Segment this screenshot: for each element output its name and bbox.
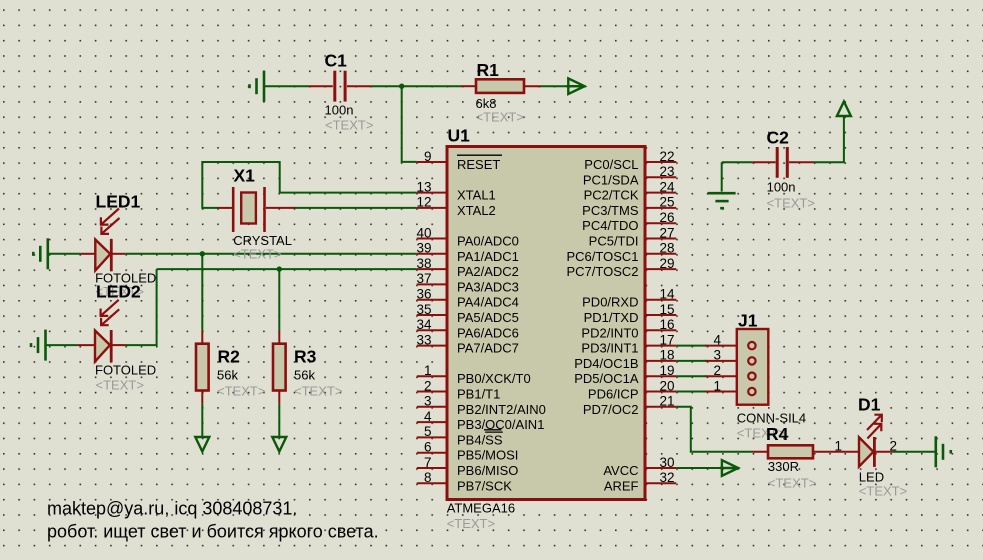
svg-text:R3: R3 <box>294 346 317 366</box>
wire C1 to R1 <box>371 85 461 87</box>
pin 38 PA2/ADC2 <box>416 256 518 279</box>
wire AVCC to power arrow <box>676 467 721 469</box>
wire node to R3 <box>278 269 280 331</box>
svg-text:20: 20 <box>660 378 675 393</box>
svg-text:35: 35 <box>416 302 431 317</box>
wire LED1 to PA1 <box>125 253 417 255</box>
svg-text:AVCC: AVCC <box>603 463 638 478</box>
pin 2 PB1/T1 <box>417 378 501 401</box>
pin 7 PB6/MISO <box>417 455 519 478</box>
wire R1 to power arrow <box>541 85 584 87</box>
svg-text:<TEXT>: <TEXT> <box>768 476 816 491</box>
svg-text:9: 9 <box>424 149 432 164</box>
pin 18 PD4/OC1B <box>574 348 676 371</box>
pin 1 PB0/XCK/T0 <box>417 363 531 386</box>
svg-text:7: 7 <box>424 455 432 470</box>
svg-text:36: 36 <box>416 287 431 302</box>
wire X1 to XTAL1 <box>202 162 416 208</box>
svg-text:PA4/ADC4: PA4/ADC4 <box>457 295 519 310</box>
svg-text:R2: R2 <box>218 346 241 366</box>
svg-text:2: 2 <box>424 378 432 393</box>
capacitor C1 <box>309 71 372 102</box>
svg-text:<TEXT>: <TEXT> <box>294 384 342 399</box>
wire LED2 riser to PA2 <box>157 268 417 270</box>
svg-text:32: 32 <box>660 470 675 485</box>
wire C2 gnd drop <box>721 162 723 191</box>
wire pin18 to J1 pin3 <box>676 360 706 362</box>
svg-text:40: 40 <box>416 225 431 240</box>
svg-text:PD6/ICP: PD6/ICP <box>588 387 639 402</box>
svg-text:PA7/ADC7: PA7/ADC7 <box>457 341 519 356</box>
pin 8 PB7/SCK <box>417 470 512 493</box>
svg-text:XTAL1: XTAL1 <box>457 188 496 203</box>
svg-text:3: 3 <box>713 348 721 363</box>
pin 35 PA5/ADC5 <box>416 302 518 325</box>
wire node to R2 <box>201 254 203 331</box>
svg-text:LED1: LED1 <box>96 192 141 212</box>
svg-text:<TEXT>: <TEXT> <box>767 196 815 211</box>
ground at LED1 <box>33 238 48 269</box>
svg-text:PC7/TOSC2: PC7/TOSC2 <box>566 264 638 279</box>
svg-text:PB1/T1: PB1/T1 <box>457 387 500 402</box>
svg-text:8: 8 <box>424 470 432 485</box>
svg-text:X1: X1 <box>234 165 256 185</box>
svg-text:33: 33 <box>416 332 431 347</box>
photodiode LED1 <box>80 209 125 272</box>
svg-text:U1: U1 <box>448 126 471 146</box>
pin 36 PA4/ADC4 <box>416 287 518 310</box>
svg-text:PA2/ADC2: PA2/ADC2 <box>457 264 519 279</box>
wire gnd to LED2 <box>46 344 77 346</box>
svg-text:PA5/ADC5: PA5/ADC5 <box>457 310 519 325</box>
svg-text:<TEXT>: <TEXT> <box>325 118 373 133</box>
svg-text:19: 19 <box>660 363 675 378</box>
svg-text:6: 6 <box>424 440 432 455</box>
svg-text:2: 2 <box>713 363 721 378</box>
svg-text:R4: R4 <box>766 424 789 444</box>
resistor R1 <box>461 79 541 93</box>
wire pin17 to J1 pin4 <box>676 345 706 347</box>
svg-text:робот. ищет свет и боится ярко: робот. ищет свет и боится яркого света. <box>47 522 379 542</box>
power down arrow below R2 <box>195 437 209 452</box>
svg-text:J1: J1 <box>738 311 758 331</box>
svg-text:PB4/SS: PB4/SS <box>457 432 503 447</box>
pin 23 PC1/SDA <box>583 164 676 187</box>
pin 5 PB4/SS <box>417 424 503 447</box>
svg-text:PD4/OC1B: PD4/OC1B <box>574 356 638 371</box>
svg-text:PC1/SDA: PC1/SDA <box>583 172 639 187</box>
svg-text:R1: R1 <box>477 60 500 80</box>
svg-text:1: 1 <box>424 363 432 378</box>
svg-text:LED: LED <box>859 470 884 485</box>
power arrow at AVCC <box>720 460 738 476</box>
wire R2 to down arrow <box>201 404 203 438</box>
resistor R2 <box>196 331 209 404</box>
svg-text:24: 24 <box>660 179 676 194</box>
svg-text:1: 1 <box>713 378 721 393</box>
pin 17 PD3/INT1 <box>581 332 676 355</box>
wire LED2 riser <box>126 269 157 345</box>
svg-text:C1: C1 <box>325 51 348 71</box>
pin 21 PD7/OC2 <box>583 394 676 417</box>
wire gnd to C1 <box>264 85 309 87</box>
MCU U1 body <box>447 147 645 500</box>
pin 28 PC6/TOSC1 <box>566 241 676 264</box>
svg-text:PB2/INT2/AIN0: PB2/INT2/AIN0 <box>457 402 546 417</box>
pin 20 PD6/ICP <box>588 378 676 401</box>
pin 9 RESET <box>417 149 502 172</box>
resistor R4 <box>753 445 832 458</box>
LED D1 <box>832 415 893 467</box>
wire pin19 to J1 pin2 <box>676 375 706 377</box>
svg-text:<TEXT>: <TEXT> <box>476 110 524 125</box>
svg-text:ATMEGA16: ATMEGA16 <box>447 501 515 516</box>
pin 37 PA3/ADC3 <box>416 271 518 294</box>
svg-text:PC5/TDI: PC5/TDI <box>589 234 639 249</box>
svg-text:14: 14 <box>660 287 676 302</box>
svg-text:PD2/INT0: PD2/INT0 <box>581 325 638 340</box>
svg-text:13: 13 <box>416 179 431 194</box>
svg-text:4: 4 <box>424 409 432 424</box>
svg-text:3: 3 <box>424 394 432 409</box>
pin 25 PC3/TMS <box>582 195 676 218</box>
ground at C1 <box>250 71 265 102</box>
svg-text:PD1/TXD: PD1/TXD <box>584 310 639 325</box>
svg-text:18: 18 <box>660 348 675 363</box>
svg-text:56k: 56k <box>217 368 238 383</box>
svg-text:PB5/MOSI: PB5/MOSI <box>457 448 518 463</box>
node junction LED1/PA1/R2 <box>200 251 205 256</box>
pin 29 PC7/TOSC2 <box>566 256 676 279</box>
svg-text:PB7/SCK: PB7/SCK <box>457 478 512 493</box>
pin 33 PA7/ADC7 <box>416 332 518 355</box>
wire R3 to down arrow <box>278 404 280 438</box>
svg-text:28: 28 <box>660 241 675 256</box>
svg-text:5: 5 <box>424 424 432 439</box>
svg-text:38: 38 <box>416 256 431 271</box>
svg-text:<TEXT>: <TEXT> <box>859 484 907 499</box>
svg-text:21: 21 <box>660 394 675 409</box>
pin 27 PC5/TDI <box>589 225 677 248</box>
svg-text:34: 34 <box>416 317 432 332</box>
svg-text:PB6/MISO: PB6/MISO <box>457 463 518 478</box>
svg-text:16: 16 <box>660 317 675 332</box>
svg-text:C2: C2 <box>767 128 790 148</box>
svg-text:<TEXT>: <TEXT> <box>233 247 281 262</box>
svg-text:PD3/INT1: PD3/INT1 <box>581 341 638 356</box>
svg-text:100n: 100n <box>767 180 796 195</box>
ground at C2 <box>708 193 736 208</box>
svg-text:PC4/TDO: PC4/TDO <box>582 218 638 233</box>
node junction LED2/PA2/R3 <box>277 266 282 271</box>
wire pin21 to R4 <box>676 407 752 452</box>
pin 14 PD0/RXD <box>582 287 676 310</box>
svg-text:PB0/XCK/T0: PB0/XCK/T0 <box>457 371 531 386</box>
svg-text:37: 37 <box>416 271 431 286</box>
pin 24 PC2/TCK <box>584 179 677 202</box>
svg-text:27: 27 <box>660 225 675 240</box>
svg-text:D1: D1 <box>858 395 881 415</box>
svg-text:<TEXT>: <TEXT> <box>217 384 265 399</box>
resistor R3 <box>273 331 286 404</box>
svg-text:23: 23 <box>660 164 675 179</box>
svg-text:PA1/ADC1: PA1/ADC1 <box>457 249 519 264</box>
ground at D1 <box>936 436 951 467</box>
svg-text:PC0/SCL: PC0/SCL <box>584 157 638 172</box>
pin 30 AVCC <box>603 455 676 478</box>
pin 3 PB2/INT2/AIN0 <box>417 394 546 417</box>
svg-text:PC3/TMS: PC3/TMS <box>582 203 639 218</box>
pin 32 AREF <box>604 470 676 493</box>
wire X1 to XTAL2 <box>295 207 417 209</box>
ground at LED2 <box>31 330 46 361</box>
svg-text:XTAL2: XTAL2 <box>457 203 496 218</box>
svg-text:PA3/ADC3: PA3/ADC3 <box>457 279 519 294</box>
pin 34 PA6/ADC6 <box>416 317 518 340</box>
pin 15 PD1/TXD <box>584 302 677 325</box>
power arrow at C2 <box>837 102 851 117</box>
pin 4 PB3/OC0/AIN1 <box>417 409 545 432</box>
pin 26 PC4/TDO <box>582 210 676 233</box>
pin 12 XTAL2 <box>416 195 495 218</box>
svg-text:AREF: AREF <box>604 478 639 493</box>
pin 16 PD2/INT0 <box>581 317 676 340</box>
pin 39 PA1/ADC1 <box>416 241 518 264</box>
wire C2 to power arrow <box>814 115 844 162</box>
svg-text:PA6/ADC6: PA6/ADC6 <box>457 325 519 340</box>
svg-text:25: 25 <box>660 195 675 210</box>
svg-text:2: 2 <box>890 439 898 454</box>
capacitor C2 <box>753 147 814 178</box>
svg-text:39: 39 <box>416 241 431 256</box>
svg-text:1: 1 <box>834 439 842 454</box>
svg-text:<TEXT>: <TEXT> <box>447 516 495 531</box>
svg-text:PC2/TCK: PC2/TCK <box>584 188 639 203</box>
svg-text:PC6/TOSC1: PC6/TOSC1 <box>566 249 638 264</box>
pin 22 PC0/SCL <box>584 149 676 172</box>
svg-text:22: 22 <box>660 149 675 164</box>
svg-text:PA0/ADC0: PA0/ADC0 <box>457 234 519 249</box>
svg-text:FOTOLED: FOTOLED <box>95 363 156 378</box>
wire node to RESET pin 9 <box>402 86 417 162</box>
svg-text:56k: 56k <box>294 368 315 383</box>
svg-text:RESET: RESET <box>457 157 500 172</box>
svg-text:PD5/OC1A: PD5/OC1A <box>574 371 639 386</box>
svg-text:26: 26 <box>660 210 675 225</box>
connector J1 CONN-SIL4 <box>705 329 768 405</box>
pin 13 XTAL1 <box>416 179 495 202</box>
svg-text:100n: 100n <box>325 103 354 118</box>
svg-text:15: 15 <box>660 302 675 317</box>
node junction C1/R1/RESET <box>399 84 404 89</box>
svg-text:PD7/OC2: PD7/OC2 <box>583 402 639 417</box>
photodiode LED2 <box>77 300 125 363</box>
svg-text:29: 29 <box>660 256 675 271</box>
svg-text:PD0/RXD: PD0/RXD <box>582 295 638 310</box>
pin 40 PA0/ADC0 <box>416 225 518 248</box>
svg-text:<TEXT>: <TEXT> <box>96 378 144 393</box>
power arrow at R1 <box>566 78 584 94</box>
svg-text:330R: 330R <box>768 459 799 474</box>
crystal X1 <box>218 187 295 232</box>
svg-text:12: 12 <box>416 195 431 210</box>
wire gnd to LED1 <box>48 253 80 255</box>
pin 6 PB5/MOSI <box>417 440 519 463</box>
svg-text:17: 17 <box>660 332 675 347</box>
svg-text:maktep@ya.ru, icq 308408731.: maktep@ya.ru, icq 308408731. <box>47 499 297 519</box>
wire gnd to C2 <box>722 161 753 163</box>
svg-text:LED2: LED2 <box>96 282 141 302</box>
wire D1 to gnd <box>893 451 935 453</box>
wire pin20 to J1 pin1 <box>676 391 706 393</box>
svg-text:4: 4 <box>713 332 721 347</box>
power down arrow below R3 <box>272 437 286 452</box>
pin 19 PD5/OC1A <box>574 363 676 386</box>
svg-text:30: 30 <box>660 455 675 470</box>
